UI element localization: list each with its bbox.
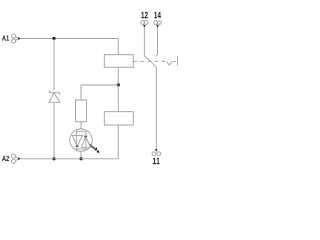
node junction A1/zener branch: [52, 37, 55, 40]
resistor inside LED circle: [76, 131, 86, 149]
dashed link end: [173, 60, 178, 62]
terminal 14: [154, 21, 162, 28]
node J2: [117, 83, 120, 86]
wire coil to node J2: [117, 67, 119, 85]
label 12: [141, 12, 148, 18]
wire rect2 to J2: [117, 85, 119, 112]
coil element K1b: [104, 112, 133, 125]
wire resistor to LED: [80, 122, 82, 129]
wire contact 12 NC: [143, 28, 145, 57]
LED light arrow 1: [89, 144, 95, 148]
actuator end bar: [177, 56, 179, 65]
wire zener branch upper: [53, 39, 55, 91]
contact arm: [144, 56, 156, 68]
LED diode D3 (up): [81, 136, 90, 147]
wire A1 horizontal: [20, 38, 118, 40]
label A1: [2, 36, 9, 41]
terminal A1: [12, 34, 21, 43]
actuator v symbol: [167, 61, 173, 65]
node junction LED/A2: [79, 157, 82, 160]
dashed actuator link: [134, 60, 167, 62]
cathode bar D3: [84, 135, 87, 137]
wire common to 11: [155, 68, 157, 150]
resistor R1: [76, 100, 87, 122]
label A2: [2, 156, 9, 161]
relay coil K1: [104, 55, 133, 68]
wire LED to A2 line: [80, 151, 82, 159]
terminal 11: [152, 149, 161, 155]
cathode bar D2: [76, 145, 79, 147]
contact 14 NO hook: [156, 54, 158, 56]
wire A2 horizontal: [20, 158, 118, 160]
LED diode D2 (down): [72, 135, 82, 146]
node junction zener/A2: [52, 157, 55, 160]
wire rect2 branch up: [117, 125, 119, 159]
terminal 12: [141, 21, 149, 28]
wire coil branch down: [117, 39, 119, 55]
label 14: [154, 12, 161, 18]
wire down to resistor: [80, 85, 82, 100]
wire zener branch lower: [53, 102, 55, 159]
terminal A2: [12, 154, 21, 163]
LED indicator circle: [70, 129, 92, 151]
suppressor diode D1: [49, 90, 60, 102]
wire J2 to resistor branch: [81, 84, 118, 86]
wire contact 14 NO: [157, 28, 159, 55]
label 11: [153, 158, 160, 164]
LED light arrow 2: [91, 146, 97, 150]
